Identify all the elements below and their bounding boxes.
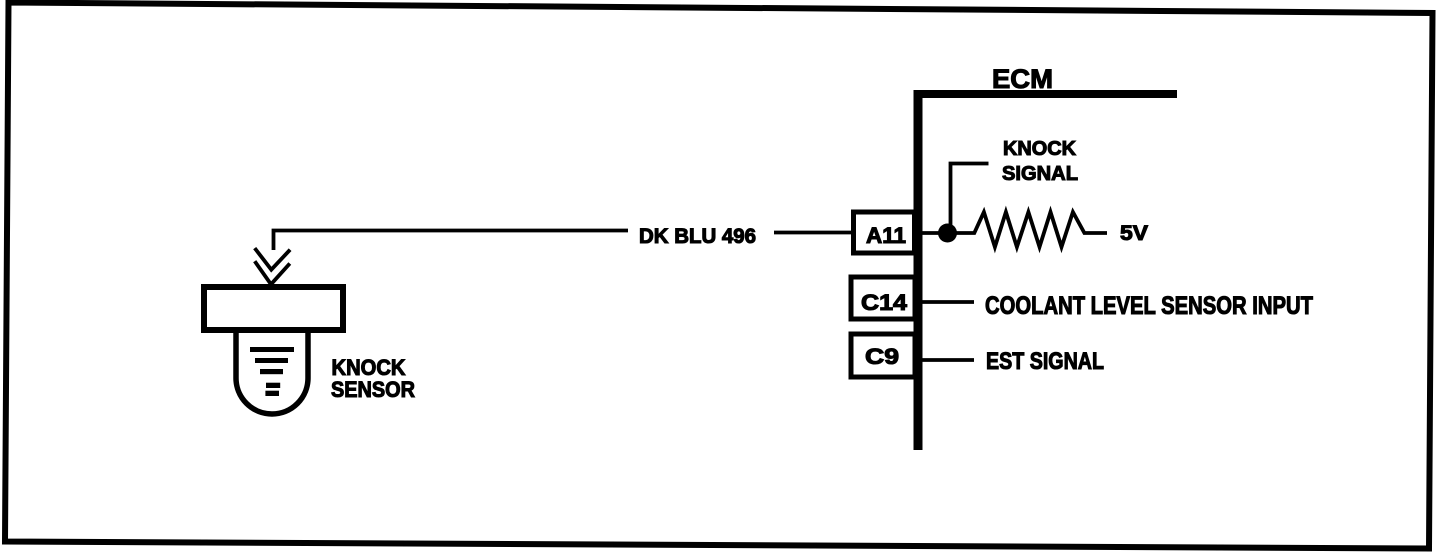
knock sensor: arrow chevron 2 (255, 261, 290, 284)
ECM top edge line (915, 90, 1177, 98)
knock sensor: piezo bar 4 (266, 383, 280, 388)
pin box C9 (851, 334, 915, 377)
svg-text:C9: C9 (865, 344, 899, 369)
svg-text:DK BLU 496: DK BLU 496 (639, 225, 756, 248)
svg-text:COOLANT LEVEL SENSOR INPUT: COOLANT LEVEL SENSOR INPUT (985, 292, 1313, 320)
node junction dot (938, 224, 957, 243)
wire: knock sensor to DK BLU 496 label (274, 231, 629, 251)
resistor (pull-up to 5V) (940, 212, 1107, 247)
ECM left edge line (914, 90, 923, 450)
svg-text:KNOCK: KNOCK (1003, 138, 1077, 160)
wire: A11 to node (915, 231, 940, 235)
svg-text:SIGNAL: SIGNAL (1002, 163, 1078, 185)
svg-text:ECM: ECM (992, 64, 1053, 94)
knock sensor: piezo bar 3 (260, 369, 283, 374)
label KNOCK SENSOR (331, 355, 415, 402)
wire: node up to knock signal stub (951, 164, 989, 234)
knock sensor: top cap rectangle (204, 287, 343, 330)
pin box A11 (854, 212, 915, 253)
knock sensor: piezo bar 2 (255, 358, 288, 363)
svg-text:A11: A11 (866, 223, 906, 248)
wire: DK BLU 496 label to A11 (774, 231, 853, 235)
pin box C14 (851, 277, 915, 319)
knock sensor: arrow chevron 1 (255, 248, 290, 270)
svg-text:EST SIGNAL: EST SIGNAL (986, 348, 1104, 375)
knock sensor: piezo bar 5 (265, 391, 279, 396)
svg-text:C14: C14 (861, 290, 908, 315)
svg-text:SENSOR: SENSOR (331, 377, 415, 402)
wire: C9 to label (915, 358, 974, 362)
wire: C14 to label (915, 300, 974, 304)
knock sensor: piezo bar 1 (250, 347, 294, 352)
svg-text:5V: 5V (1120, 222, 1148, 245)
label KNOCK SIGNAL (1002, 138, 1078, 185)
knock sensor: body (rounded bottom) (236, 329, 308, 414)
